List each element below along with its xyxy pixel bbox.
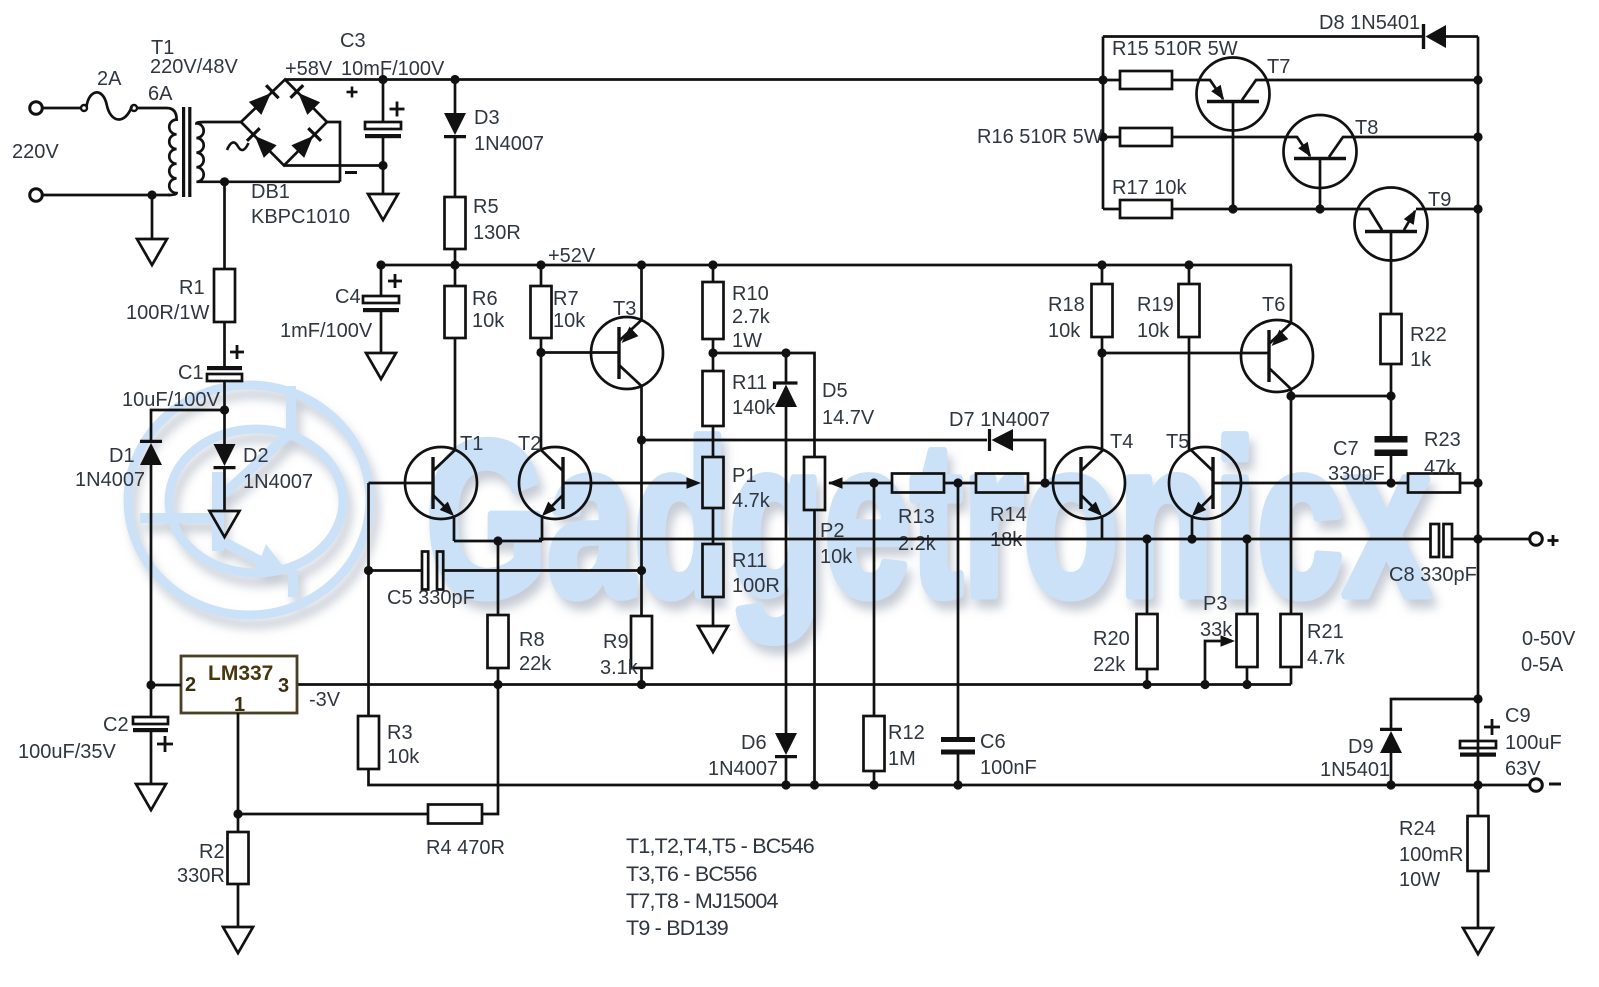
node rail/D9 top: [1473, 694, 1482, 703]
svg-text:1M: 1M: [888, 748, 916, 770]
svg-text:0-50V: 0-50V: [1522, 628, 1576, 650]
svg-text:C2: C2: [103, 714, 129, 736]
diode D2 1N4007: [223, 410, 226, 444]
resistor R15 510R 5W: [1103, 79, 1120, 82]
svg-text:T8: T8: [1355, 117, 1378, 139]
node P2 bottom: [810, 780, 819, 789]
svg-text:R3: R3: [387, 722, 413, 744]
svg-text:4.7k: 4.7k: [1307, 647, 1346, 669]
svg-text:D6: D6: [741, 732, 767, 754]
wire D9 branch: [1391, 699, 1478, 729]
svg-text:R20: R20: [1093, 628, 1130, 650]
diode D7 1N4007: [988, 429, 991, 451]
svg-text:0-5A: 0-5A: [1521, 654, 1564, 676]
transformer T1 secondary: [196, 122, 241, 182]
node rail/R15 row: [1098, 75, 1107, 84]
bridge - mark: [345, 171, 357, 174]
wire LM337 pin1: [237, 713, 240, 814]
node P3 bottom: [1242, 680, 1251, 689]
svg-text:130R: 130R: [473, 222, 521, 244]
rail top (D8 line): [1103, 35, 1422, 38]
svg-text:R8: R8: [519, 629, 545, 651]
node R1 tap: [220, 177, 229, 186]
wire bridge AC right: [327, 122, 340, 182]
svg-text:P3: P3: [1203, 593, 1227, 615]
svg-text:100nF: 100nF: [980, 757, 1037, 779]
wire C6 drop: [957, 483, 960, 737]
node R19: [1184, 260, 1193, 269]
svg-text:C6: C6: [980, 731, 1006, 753]
svg-text:D3: D3: [474, 107, 500, 129]
node D3 top: [450, 75, 459, 84]
bridge diode (left-top): [249, 93, 271, 115]
rail +58V: [285, 78, 1103, 81]
resistor R12 1M: [864, 716, 885, 771]
capacitor C6 100nF: [941, 737, 975, 742]
capacitor C1 10uF/100V: [207, 366, 242, 370]
resistor R13 2.2k: [892, 474, 944, 493]
svg-text:220V: 220V: [12, 141, 59, 163]
wire R12 drop: [873, 483, 876, 716]
wire R10 junction to D5/P2: [713, 353, 815, 457]
resistor R20 22k: [1146, 539, 1149, 614]
transistor T1 BC546: [405, 447, 477, 519]
svg-text:3.1k: 3.1k: [600, 657, 639, 679]
ground (C4): [366, 353, 396, 379]
svg-text:220V/48V: 220V/48V: [150, 56, 239, 78]
svg-text:R13: R13: [898, 506, 935, 528]
svg-text:T7,T8 - MJ15004: T7,T8 - MJ15004: [626, 889, 779, 913]
rail right (output): [1477, 37, 1480, 786]
svg-text:10mF/100V: 10mF/100V: [341, 58, 445, 80]
svg-text:100R/1W: 100R/1W: [126, 302, 209, 324]
svg-text:1N4007: 1N4007: [708, 758, 778, 780]
diode D6 1N4007: [775, 733, 797, 755]
node R10/R11: [708, 348, 717, 357]
transistor T5 BC546: [1169, 447, 1241, 519]
node pin1/R2/R4: [233, 809, 242, 818]
svg-text:R12: R12: [888, 722, 925, 744]
capacitor C8 330pF: [1431, 524, 1440, 557]
svg-text:10k: 10k: [1048, 320, 1081, 342]
node C6 bottom: [953, 780, 962, 789]
wiper arrow into P3: [1205, 641, 1232, 685]
ground (C3): [368, 194, 398, 220]
resistor R18 10k: [1101, 265, 1104, 284]
wire T1/T2 emitters: [454, 540, 542, 543]
svg-text:+58V: +58V: [285, 58, 333, 80]
wire T1 base down: [367, 483, 370, 716]
svg-text:D1: D1: [109, 445, 135, 467]
transistor T7 MJ15004: [1197, 58, 1270, 131]
node C3 top: [378, 75, 387, 84]
resistor R2 330R: [237, 814, 240, 832]
wire D7 to T4 base: [1013, 440, 1045, 483]
svg-text:LM337: LM337: [208, 662, 273, 685]
svg-text:10k: 10k: [472, 310, 505, 332]
node R18: [1097, 260, 1106, 269]
ground (primary): [151, 195, 154, 239]
svg-text:R10: R10: [732, 283, 769, 305]
svg-text:R4 470R: R4 470R: [426, 837, 505, 859]
svg-text:R18: R18: [1048, 294, 1085, 316]
svg-text:10k: 10k: [1137, 320, 1170, 342]
ground (D2): [210, 511, 240, 537]
resistor R4 470R: [238, 813, 428, 816]
wire T3 base: [541, 351, 619, 354]
svg-text:4.7k: 4.7k: [732, 490, 771, 512]
transistor T8 MJ15004: [1284, 115, 1357, 188]
bridge diode (right-top): [298, 93, 320, 115]
node T3 emitter: [637, 260, 646, 269]
resistor R11 140k: [703, 371, 724, 426]
resistor R19 10k: [1188, 265, 1191, 284]
ground (R2): [223, 927, 253, 953]
node R20 tap: [1142, 534, 1151, 543]
transistor T2 BC546: [519, 447, 591, 519]
svg-text:R14: R14: [990, 504, 1027, 526]
input terminal L: [30, 102, 43, 115]
wire T4 collector: [1101, 353, 1104, 450]
svg-text:330pF: 330pF: [1328, 463, 1385, 485]
svg-text:R23: R23: [1424, 429, 1461, 451]
diode D3 1N4007: [454, 80, 457, 114]
node rail/T8 row: [1473, 132, 1482, 141]
resistor R24 100mR 10W: [1477, 785, 1480, 816]
resistor R17 10k: [1103, 208, 1120, 211]
wire T5 collector: [1188, 337, 1191, 450]
transformer T1 core: [182, 107, 185, 197]
node P3 wiper: [1200, 680, 1209, 689]
node R12 bottom: [869, 780, 878, 789]
capacitor C5 330pF: [369, 569, 423, 572]
svg-text:R24: R24: [1399, 818, 1436, 840]
svg-text:C5 330pF: C5 330pF: [387, 587, 475, 609]
node R13/R14/C6: [953, 478, 962, 487]
svg-text:2: 2: [185, 674, 196, 696]
wiper arrow into P2: [828, 477, 843, 489]
bridge diode (bottom-right): [291, 136, 313, 158]
ground (R24): [1463, 928, 1493, 954]
bridge AC squiggle: [227, 142, 249, 150]
svg-text:1N4007: 1N4007: [243, 471, 313, 493]
svg-text:D9: D9: [1348, 736, 1374, 758]
node rail/output+: [1473, 534, 1482, 543]
svg-text:R11: R11: [732, 372, 767, 394]
node C5 right: [637, 566, 646, 575]
svg-text:C4: C4: [335, 286, 361, 308]
svg-text:T3: T3: [613, 298, 636, 320]
regulator U1 LM337: [181, 656, 297, 713]
node T8 base/R17 row: [1315, 204, 1324, 213]
input terminal N: [30, 189, 43, 202]
svg-text:100R: 100R: [732, 575, 780, 597]
transistor T3 BC556: [591, 317, 663, 389]
svg-text:R21: R21: [1307, 621, 1344, 643]
svg-text:T3,T6 - BC556: T3,T6 - BC556: [626, 862, 757, 886]
svg-text:R19: R19: [1137, 294, 1174, 316]
transistor T9 BD139: [1355, 188, 1428, 261]
resistor R9 3.1k: [631, 616, 652, 668]
svg-text:D5: D5: [822, 380, 848, 402]
node C4: [376, 260, 385, 269]
node rail/R23: [1473, 478, 1482, 487]
wire T3 collector to D7: [642, 439, 988, 442]
svg-text:D8 1N5401: D8 1N5401: [1319, 12, 1420, 34]
node T3 base tap: [536, 348, 545, 357]
output terminal -: [1530, 779, 1543, 792]
svg-text:33k: 33k: [1200, 619, 1233, 641]
svg-text:R17 10k: R17 10k: [1112, 177, 1187, 199]
svg-text:100mR: 100mR: [1399, 844, 1463, 866]
svg-text:1N4007: 1N4007: [75, 469, 145, 491]
svg-text:1N4007: 1N4007: [474, 133, 544, 155]
potentiometer P1 4.7k: [703, 457, 724, 508]
node R7: [536, 260, 545, 269]
svg-text:1mF/100V: 1mF/100V: [280, 320, 373, 342]
rail -3V (LM337 output): [298, 683, 1291, 686]
svg-text:100uF: 100uF: [1505, 732, 1562, 754]
wire LM337 pin2: [151, 684, 181, 687]
node rail/T7 row: [1473, 75, 1482, 84]
node rail/C9 bottom: [1473, 780, 1482, 789]
node primary-ground junction: [147, 190, 156, 199]
wire to D1: [151, 410, 225, 441]
svg-text:63V: 63V: [1505, 758, 1541, 780]
node rail/R16 row: [1098, 132, 1107, 141]
svg-text:T9 - BD139: T9 - BD139: [626, 916, 728, 940]
potentiometer P3 33k: [1246, 539, 1249, 614]
resistor R8 22k: [488, 615, 509, 668]
resistor R10 2.7k 1W: [712, 265, 715, 282]
zener diode D5 14.7V: [785, 353, 788, 383]
resistor R7 10k: [540, 265, 543, 286]
svg-text:+52V: +52V: [548, 245, 596, 267]
node R22/C7 mid: [1386, 391, 1395, 400]
capacitor C9 100uF 63V: [1460, 741, 1496, 748]
svg-text:10k: 10k: [820, 546, 853, 568]
svg-text:10k: 10k: [553, 310, 586, 332]
svg-text:2.7k: 2.7k: [732, 306, 771, 328]
svg-text:1W: 1W: [732, 330, 762, 352]
svg-text:KBPC1010: KBPC1010: [251, 206, 350, 228]
wire secondary bottom: [204, 180, 340, 183]
svg-text:D7 1N4007: D7 1N4007: [949, 409, 1050, 431]
wire T6 base line: [1102, 352, 1269, 355]
node P2 wiper/R12: [869, 478, 878, 487]
svg-text:R15 510R 5W: R15 510R 5W: [1112, 38, 1238, 60]
svg-text:10W: 10W: [1399, 869, 1440, 891]
fuse F1 2A: [81, 105, 87, 111]
node R8/R4: [493, 680, 502, 689]
svg-text:2A: 2A: [97, 68, 122, 90]
rail left (driver block): [1102, 37, 1105, 210]
svg-text:1N5401: 1N5401: [1320, 759, 1390, 781]
resistor R16 510R 5W: [1103, 136, 1120, 139]
wire T6 collector to R22/C7: [1291, 395, 1391, 398]
bridge + mark: [347, 91, 358, 94]
svg-text:R2: R2: [199, 841, 225, 863]
svg-text:R7: R7: [553, 288, 579, 310]
node D9 bottom: [1386, 780, 1395, 789]
svg-text:14.7V: 14.7V: [822, 407, 875, 429]
resistor R21 4.7k: [1281, 614, 1302, 667]
wire: [43, 194, 171, 197]
svg-text:T1: T1: [460, 433, 483, 455]
node R18/T6 base: [1097, 348, 1106, 357]
rail +52V: [381, 264, 1292, 267]
node T7 base/R17 row: [1228, 204, 1237, 213]
node T3 collector / D7 line: [637, 435, 646, 444]
transformer T1 primary: [136, 108, 177, 195]
svg-text:10uF/100V: 10uF/100V: [122, 389, 221, 411]
svg-text:R16 510R 5W: R16 510R 5W: [977, 126, 1103, 148]
node C7/R23/T5 base: [1386, 478, 1395, 487]
ground (R11): [698, 626, 728, 652]
svg-text:-3V: -3V: [309, 689, 341, 711]
svg-text:C1: C1: [178, 362, 204, 384]
svg-text:R1: R1: [179, 277, 205, 299]
capacitor C4 1mF/100V: [380, 265, 383, 296]
node bridge minus / C3: [378, 161, 387, 170]
svg-text:330R: 330R: [177, 865, 225, 887]
resistor R11 100R: [703, 544, 724, 597]
svg-text:22k: 22k: [519, 653, 552, 675]
diode D9 1N5401: [1380, 731, 1402, 753]
svg-text:R9: R9: [603, 631, 629, 653]
wire T4/T5 emitters to C8: [539, 538, 1102, 541]
capacitor C2 100uF/35V: [150, 685, 153, 717]
svg-text:P1: P1: [732, 465, 756, 487]
node D5 top: [781, 348, 790, 357]
node T6 collector: [1286, 391, 1295, 400]
capacitor C7 330pF: [1375, 436, 1408, 443]
svg-text:100uF/35V: 100uF/35V: [18, 741, 117, 763]
svg-text:10k: 10k: [387, 746, 420, 768]
svg-text:C9: C9: [1505, 705, 1531, 727]
transistor T6 BC556: [1241, 320, 1313, 392]
ground (C2): [136, 784, 166, 810]
svg-text:T7: T7: [1267, 56, 1290, 78]
wiper arrow into P1: [687, 477, 702, 489]
svg-text:T9: T9: [1428, 189, 1451, 211]
resistor R22 1k: [1381, 314, 1402, 364]
resistor R14 18k: [976, 474, 1028, 493]
svg-text:47k: 47k: [1424, 457, 1457, 479]
svg-text:22k: 22k: [1093, 654, 1126, 676]
diode D8 1N5401: [1422, 24, 1425, 49]
wire bridge minus to C3: [284, 164, 383, 167]
svg-text:T2: T2: [518, 433, 541, 455]
svg-text:140k: 140k: [732, 397, 776, 419]
watermark logo + text (behind schematic): [128, 385, 1430, 642]
node rail/T9 row: [1473, 204, 1482, 213]
bridge rectifier DB1 outline: [241, 80, 327, 166]
svg-text:2.2k: 2.2k: [898, 533, 937, 555]
svg-text:C3: C3: [340, 30, 366, 52]
node R20 bottom: [1142, 680, 1151, 689]
svg-text:C7: C7: [1333, 438, 1359, 460]
svg-text:1k: 1k: [1410, 349, 1432, 371]
capacitor C3: [382, 80, 385, 123]
resistor R3 10k: [358, 716, 379, 769]
node C1/D1/D2: [220, 405, 229, 414]
svg-text:DB1: DB1: [251, 181, 290, 203]
svg-text:C8 330pF: C8 330pF: [1389, 564, 1477, 586]
svg-text:T4: T4: [1110, 431, 1133, 453]
node R9: [637, 680, 646, 689]
diode D1 1N4007: [140, 443, 162, 465]
node P3 tap: [1242, 534, 1251, 543]
svg-text:R22: R22: [1410, 324, 1447, 346]
svg-text:T6: T6: [1262, 294, 1285, 316]
node emitter junction: [493, 536, 502, 545]
resistor R23 47k: [1391, 482, 1408, 485]
node R5/R6: [450, 260, 459, 269]
svg-text:R6: R6: [472, 288, 498, 310]
svg-text:6A: 6A: [148, 83, 173, 105]
transistor T4 BC546: [1053, 447, 1125, 519]
node D6 bottom: [781, 780, 790, 789]
wire to R8: [497, 541, 500, 615]
svg-text:1: 1: [234, 694, 245, 716]
output terminal +: [1530, 533, 1543, 546]
wire: [43, 107, 82, 110]
svg-text:R5: R5: [473, 196, 499, 218]
node R10: [708, 260, 717, 269]
svg-text:3: 3: [278, 675, 289, 697]
svg-text:R11: R11: [732, 550, 767, 572]
svg-text:T1,T2,T4,T5 - BC546: T1,T2,T4,T5 - BC546: [626, 834, 815, 858]
svg-text:D2: D2: [243, 445, 269, 467]
node D1/C2/pin2: [146, 680, 155, 689]
bridge diode (bottom-left): [255, 136, 277, 158]
resistor R1 100R/1W: [223, 182, 226, 269]
potentiometer P2 10k: [804, 457, 825, 510]
rail negative output: [369, 769, 1530, 785]
node T5 emitter: [1187, 534, 1196, 543]
svg-text:T5: T5: [1166, 431, 1189, 453]
node C5 left: [364, 566, 373, 575]
node D7/T4 base: [1040, 478, 1049, 487]
resistor R5 130R: [445, 197, 466, 249]
resistor R6 10k: [454, 265, 457, 286]
